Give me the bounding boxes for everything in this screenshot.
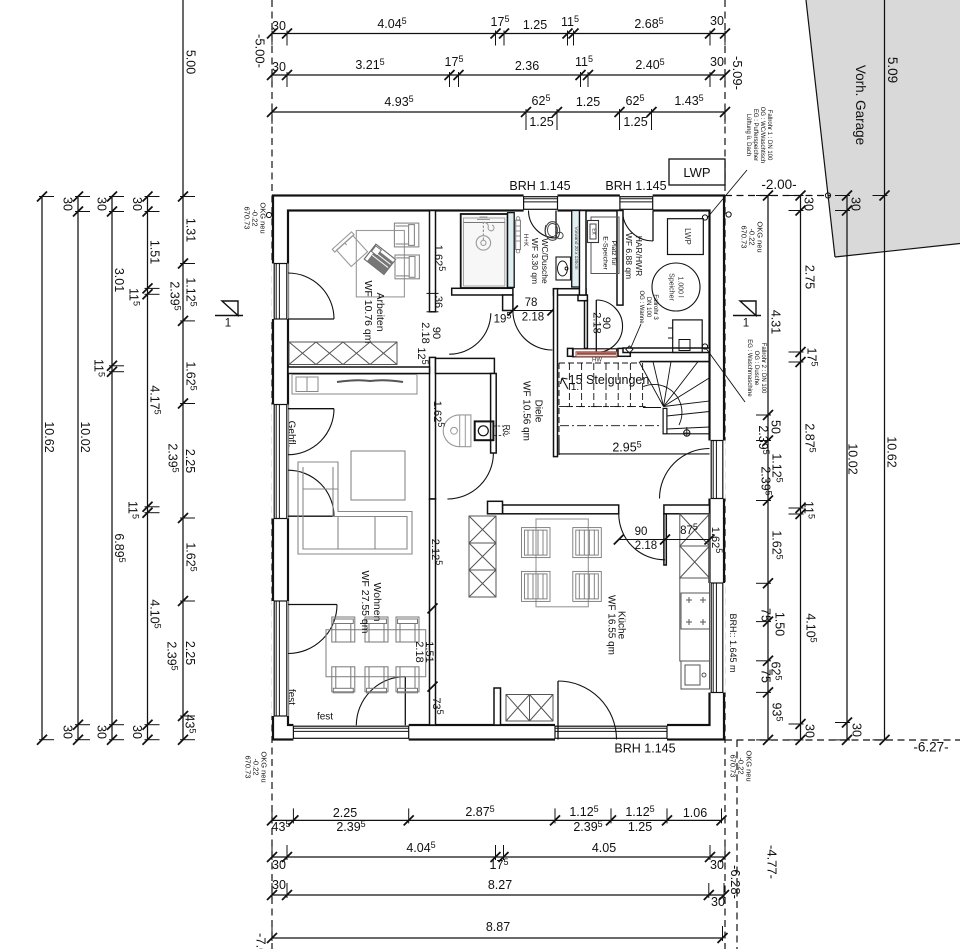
- wall Espeicher side: [585, 301, 588, 349]
- wall kitchen right stub: [664, 514, 666, 565]
- svg-text:5.00: 5.00: [184, 50, 198, 74]
- window top HAR with sill: [620, 197, 653, 210]
- svg-text:30: 30: [272, 858, 286, 872]
- wall V1 Wohnen-Kueche lower: [430, 499, 436, 725]
- svg-text:30: 30: [710, 55, 724, 69]
- svg-text:2.18: 2.18: [413, 641, 425, 662]
- svg-text:WF 10.56 qm: WF 10.56 qm: [520, 381, 531, 441]
- exterior wall inner face: [288, 211, 710, 726]
- svg-text:30: 30: [849, 197, 863, 211]
- svg-text:36: 36: [432, 296, 444, 308]
- armchair: [351, 451, 405, 500]
- svg-text:Gehfl.: Gehfl.: [285, 421, 296, 448]
- right dimension chain 2.75/2.87/4.10: [800, 196, 802, 740]
- svg-text:E-Speicher: E-Speicher: [602, 236, 609, 270]
- svg-text:WF 27.55 qm: WF 27.55 qm: [359, 570, 371, 633]
- svg-text:HAR/HWR: HAR/HWR: [634, 236, 644, 277]
- wall under bathroom right: [554, 289, 587, 295]
- door arc Diele-Arbeiten: [449, 313, 491, 354]
- wall V1 Arbeiten-corridor upper: [430, 211, 436, 312]
- opening bottom wall Wohnen window: [293, 724, 408, 742]
- door arc hall-kitchen: [619, 514, 665, 560]
- svg-text:WC/Dusche: WC/Dusche: [540, 238, 550, 284]
- svg-text:-6.27-: -6.27-: [913, 740, 948, 755]
- window right hall: [711, 441, 723, 499]
- svg-text:30: 30: [130, 725, 144, 739]
- svg-text:2.18: 2.18: [522, 312, 544, 324]
- shaft Roe: [475, 421, 494, 440]
- window left Arbeiten: [274, 264, 287, 320]
- opening bottom wall kitchen window: [555, 724, 667, 742]
- stairs walking line: [560, 425, 660, 427]
- window bottom Wohnen: [293, 726, 408, 738]
- left dimension chain 3.01/6.89: [111, 197, 113, 740]
- svg-text:75: 75: [759, 608, 773, 622]
- door leaf+arc left wall Arbeiten: [288, 318, 334, 320]
- wall HAR left: [617, 211, 623, 306]
- svg-text:1.25: 1.25: [523, 18, 547, 32]
- svg-text:75: 75: [759, 669, 773, 683]
- bottom dashed line -6.27-: [725, 739, 960, 741]
- svg-text:-7.04-: -7.04-: [253, 933, 268, 949]
- svg-text:Platz für: Platz für: [610, 241, 617, 267]
- svg-text:1.25: 1.25: [623, 115, 647, 129]
- opening left wall fest window: [272, 601, 289, 716]
- E-Speicher reserved area: [591, 217, 619, 274]
- svg-text:-6.28-: -6.28-: [728, 865, 743, 899]
- top dimension row 1: [272, 33, 725, 35]
- svg-text:30: 30: [850, 723, 864, 737]
- dining chairs: [332, 617, 355, 642]
- kitchen stove: [681, 593, 710, 629]
- sub-dimension bracket 1.25 right: [619, 114, 621, 130]
- svg-text:5.09: 5.09: [885, 57, 900, 83]
- svg-text:30: 30: [803, 724, 817, 738]
- shower glass wall cyan strip: [508, 213, 515, 288]
- right boundary dashed line: [724, 0, 726, 949]
- dining table: [326, 630, 426, 677]
- svg-text:1.000 l: 1.000 l: [677, 276, 684, 297]
- towel radiator H+K: [516, 220, 521, 249]
- left dimension chain room heights: [182, 0, 184, 740]
- svg-text:OG : Dusche: OG : Dusche: [753, 351, 759, 386]
- washbasin bathroom: [556, 257, 571, 280]
- svg-text:WF 16.55 qm: WF 16.55 qm: [605, 595, 616, 655]
- window bottom kitchen: [555, 726, 667, 738]
- wall pier kitchen left lower: [494, 688, 501, 725]
- svg-text:10.02: 10.02: [846, 443, 860, 474]
- opening right wall hall door-window: [708, 441, 726, 499]
- opening right wall kitchen window: [708, 583, 726, 693]
- visitor chairs: [394, 223, 419, 279]
- svg-text:1.25: 1.25: [576, 95, 600, 109]
- shower head: [476, 236, 490, 250]
- svg-text:2.18: 2.18: [419, 322, 431, 343]
- svg-text:1.06: 1.06: [683, 806, 707, 820]
- window left Gehfl: [274, 405, 287, 519]
- top right dashed line -2.00-: [725, 195, 830, 197]
- left dimension chain 10.62: [41, 197, 43, 740]
- opening top wall window-door WC: [524, 194, 558, 212]
- section marker 1 right: [740, 301, 756, 316]
- top dimension row 3: [272, 111, 725, 113]
- bottom dimension row 1: [272, 819, 722, 821]
- svg-text:30: 30: [710, 858, 724, 872]
- svg-text:30: 30: [61, 725, 75, 739]
- svg-text:2.18: 2.18: [635, 540, 657, 552]
- desk: [356, 231, 404, 297]
- svg-text:30: 30: [272, 19, 286, 33]
- svg-text:EG : Pufferspeicher: EG : Pufferspeicher: [752, 109, 758, 161]
- bathroom Vorwand cyan strip: [572, 211, 580, 288]
- wall kitchen top left: [503, 505, 619, 514]
- section marker 1 left: [222, 301, 238, 316]
- svg-text:OG : WC/Waschtisch: OG : WC/Waschtisch: [759, 107, 765, 163]
- door arcs Gehfl double door: [288, 408, 334, 410]
- svg-text:670.73: 670.73: [242, 207, 251, 230]
- window left fest: [274, 601, 287, 716]
- svg-text:EG : Waschmaschine: EG : Waschmaschine: [746, 339, 752, 397]
- pipe circle left corner: [266, 212, 271, 217]
- svg-text:BRH 1.145: BRH 1.145: [605, 179, 666, 193]
- door bottom Wohnen terrace: [404, 677, 406, 726]
- LWP label box: [669, 159, 725, 185]
- door arc Diele-Wohnen: [447, 453, 493, 499]
- kitchen chairs: [522, 528, 551, 558]
- svg-text:Fallrohr 2 : DN 100: Fallrohr 2 : DN 100: [760, 343, 766, 394]
- door top WC entrance: [555, 211, 557, 239]
- wall bathroom bottom: [452, 288, 513, 295]
- svg-text:8.27: 8.27: [488, 878, 512, 892]
- desk chair: [332, 232, 368, 268]
- wall V1 mid piece: [430, 357, 436, 499]
- svg-text:1.: 1.: [571, 382, 579, 393]
- wall HAR bottom: [623, 348, 710, 353]
- wall stairs left: [554, 289, 558, 457]
- LWP unit: [668, 219, 704, 255]
- svg-text:fest: fest: [317, 712, 333, 723]
- wardrobe X cabinets Arbeiten: [289, 342, 397, 365]
- svg-text:-4.77-: -4.77-: [764, 845, 779, 879]
- wall pier kitchen top-left corner: [488, 501, 503, 514]
- opening left wall Gehfl window: [272, 405, 289, 519]
- kitchen counter right: [680, 578, 710, 661]
- svg-text:4.05: 4.05: [592, 841, 616, 855]
- pipe circle top right corner: [702, 215, 707, 220]
- svg-text:1.50: 1.50: [773, 612, 787, 636]
- svg-text:Fallrohr 1 : DN 100: Fallrohr 1 : DN 100: [766, 110, 772, 161]
- svg-text:fest: fest: [285, 689, 296, 705]
- svg-text:Lüftung ü. Dach: Lüftung ü. Dach: [745, 114, 751, 156]
- svg-text:10.62: 10.62: [885, 436, 899, 467]
- door bottom kitchen terrace: [557, 681, 559, 740]
- left boundary dashed line: [271, 0, 273, 949]
- svg-text:10.62: 10.62: [42, 421, 56, 452]
- svg-text:Wohnen: Wohnen: [371, 583, 383, 622]
- window top WC with sill: [524, 197, 558, 210]
- Speicher tank circle: [652, 263, 700, 311]
- svg-text:Speicher: Speicher: [668, 273, 675, 301]
- right dimension chain window openings: [767, 196, 769, 740]
- bottom dimension row 2: [272, 856, 725, 858]
- wall thick band stair foot: [436, 358, 495, 373]
- dim door 78: [513, 310, 553, 312]
- svg-text:Elt: Elt: [591, 228, 597, 235]
- wall stair-top left stub: [568, 348, 574, 356]
- svg-text:-5.09-: -5.09-: [730, 56, 745, 90]
- svg-text:Rö.: Rö.: [502, 425, 511, 437]
- opening top wall window-door HAR: [620, 194, 653, 212]
- svg-text:2.18: 2.18: [591, 312, 603, 333]
- shower tray: [461, 214, 508, 288]
- svg-text:DN 100: DN 100: [645, 297, 651, 318]
- svg-text:30: 30: [61, 197, 75, 211]
- svg-text:1.31: 1.31: [184, 218, 198, 242]
- svg-text:2.25: 2.25: [183, 449, 197, 473]
- door leaf+arc left wall fest-door: [288, 604, 337, 606]
- wall H1 Arbeiten-Wohnen: [288, 367, 430, 374]
- kitchen bottom cabinet: [506, 695, 530, 722]
- wall bathroom-Espeicher: [579, 211, 586, 296]
- window right kitchen: [711, 583, 723, 693]
- door arc bathroom: [513, 311, 553, 351]
- top dimension row 2: [272, 74, 725, 76]
- svg-text:30: 30: [272, 878, 286, 892]
- stairs dimension 2.95: [559, 453, 710, 455]
- washing machine: [673, 320, 703, 353]
- door right wall hall: [660, 449, 710, 499]
- Vorh. Garage grey area: [806, 0, 960, 257]
- sideboard: [292, 375, 417, 395]
- sofa L-shape: [298, 462, 412, 554]
- wall Espeicher foot: [578, 295, 587, 301]
- svg-text:2.25: 2.25: [183, 641, 197, 665]
- pipe circle bottom right corner: [702, 344, 707, 349]
- washbasin Diele: [443, 415, 471, 447]
- svg-text:78: 78: [525, 297, 538, 309]
- svg-text:LWP: LWP: [683, 165, 710, 180]
- right dimension chain 10.62: [884, 0, 886, 740]
- svg-text:1: 1: [743, 318, 749, 330]
- svg-text:30: 30: [130, 197, 144, 211]
- svg-text:2.36: 2.36: [515, 59, 539, 73]
- svg-text:OG : Wanne: OG : Wanne: [638, 290, 644, 324]
- fallrohr3 leader: [631, 324, 642, 349]
- right dimension chain 10.02: [846, 196, 848, 740]
- svg-text:30: 30: [711, 895, 725, 909]
- svg-text:WF 3.30 qm: WF 3.30 qm: [530, 238, 540, 284]
- svg-text:-2.00-: -2.00-: [761, 177, 796, 192]
- svg-text:4.31: 4.31: [769, 310, 783, 334]
- svg-text:10.02: 10.02: [78, 421, 92, 452]
- svg-text:WF 6.88 qm: WF 6.88 qm: [624, 233, 634, 279]
- svg-text:30: 30: [710, 14, 724, 28]
- svg-text:LWP: LWP: [683, 228, 692, 245]
- svg-text:HW: HW: [592, 358, 602, 364]
- left dimension chain 10.02: [77, 197, 79, 740]
- svg-text:2.75: 2.75: [803, 265, 817, 289]
- svg-text:1: 1: [225, 318, 231, 330]
- svg-text:15 Steigungen: 15 Steigungen: [569, 373, 650, 387]
- svg-text:Fallrohr 3: Fallrohr 3: [652, 294, 658, 320]
- svg-text:Diele: Diele: [532, 400, 543, 423]
- wall column corridor: [503, 295, 513, 311]
- svg-text:1.51: 1.51: [148, 240, 162, 264]
- svg-text:30: 30: [95, 725, 109, 739]
- svg-text:WF 10.76 qm: WF 10.76 qm: [362, 280, 374, 343]
- pipe circle outside corner: [726, 212, 731, 217]
- kitchen tall cabinets right: [680, 514, 710, 546]
- right second dashed line: [736, 740, 738, 949]
- svg-text:1.25: 1.25: [628, 820, 652, 834]
- bottom dimension row 3: [272, 894, 724, 896]
- svg-text:670.73: 670.73: [728, 755, 737, 778]
- svg-text:2.25: 2.25: [333, 806, 357, 820]
- fallrohr2 leader: [707, 349, 746, 402]
- Elt box: [588, 221, 599, 243]
- wall stair-top right stub: [618, 348, 630, 356]
- door HAR leaf+arc: [595, 300, 597, 353]
- svg-text:H+K: H+K: [522, 234, 529, 247]
- heater HW red strip: [573, 349, 617, 357]
- svg-text:30: 30: [272, 60, 286, 74]
- bottom dimension row 4: [272, 937, 723, 939]
- svg-text:1.25: 1.25: [529, 115, 553, 129]
- sub-dimension bracket 1.25 left: [525, 114, 527, 130]
- svg-text:670.73: 670.73: [739, 226, 748, 249]
- kitchen tall cabinets left: [469, 516, 496, 543]
- opening left wall Arbeiten window-door: [272, 264, 289, 320]
- stairs 15 Steigungen: [559, 362, 640, 364]
- svg-text:670.73: 670.73: [243, 756, 252, 779]
- fallrohr1 leader: [707, 170, 747, 218]
- toilet WC: [545, 222, 559, 241]
- svg-text:30: 30: [802, 197, 816, 211]
- svg-text:90: 90: [635, 526, 648, 538]
- svg-text:8.87: 8.87: [486, 920, 510, 934]
- desk laptop: [364, 244, 395, 274]
- svg-text:BRH 1.145: BRH 1.145: [509, 179, 570, 193]
- kitchen table: [536, 519, 588, 607]
- wall kitchen top right: [664, 505, 710, 514]
- kitchen sink: [681, 661, 710, 689]
- svg-text:BRH 1.145: BRH 1.145: [614, 742, 675, 756]
- door top HAR entrance: [652, 211, 654, 242]
- wall Diele left: [491, 374, 497, 454]
- svg-text:Vorwand 20 x 120cm: Vorwand 20 x 120cm: [574, 227, 579, 270]
- svg-text:3.01: 3.01: [112, 268, 126, 292]
- left dimension chain 1.51/4.17/4.10: [147, 197, 149, 740]
- svg-text:-5.00-: -5.00-: [252, 34, 267, 68]
- svg-text:BRH:: 1.645 m: BRH:: 1.645 m: [728, 613, 738, 672]
- exterior wall outer face: [273, 196, 724, 740]
- svg-text:Arbeiten: Arbeiten: [374, 292, 386, 331]
- svg-text:Vorh. Garage: Vorh. Garage: [853, 65, 868, 145]
- svg-text:30: 30: [95, 197, 109, 211]
